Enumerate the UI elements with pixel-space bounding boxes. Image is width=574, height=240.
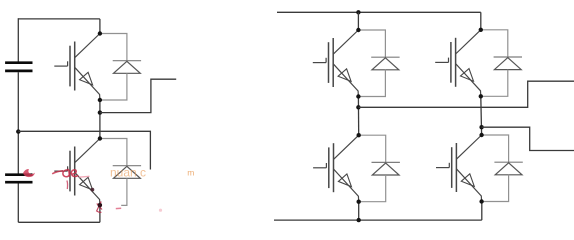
emitter arrow of Q5 (461, 69, 474, 82)
diode Q5D cathode bar (494, 56, 522, 58)
wire: leg B middle (Q5 emitter to Q6 collector) (480, 96, 483, 135)
gate terminal tick of Q2 (67, 166, 69, 171)
wire: bottom rail corner up to Q6 emitter (481, 202, 483, 221)
wire: left circuit top rail (18, 18, 100, 20)
diode Q4D cathode bar (372, 161, 400, 163)
wire: left DC bus upper segment (17, 18, 19, 61)
IGBT Q5 body bar (455, 38, 457, 87)
diode Q2D cathode bar (113, 165, 141, 167)
wire: diode loop top of Q6 (482, 135, 509, 162)
wire: diode loop top of Q4 (359, 135, 386, 162)
wire: H-bridge top rail (277, 11, 481, 13)
IGBT Q4 body bar (333, 143, 335, 192)
diode Q1D triangle (114, 61, 141, 73)
wire: phase output lead (upper terminal) (100, 79, 176, 112)
wire: left circuit bottom rail (18, 221, 100, 223)
wire: collector diagonal of Q3 (333, 30, 358, 54)
watermark: red scribble on Q2 emitter wire (96, 202, 102, 213)
watermark: red crescent on C2 (23, 169, 34, 177)
node: leg B output junction (479, 125, 483, 129)
watermark: dark smudge on Q2 arrow tip (91, 188, 95, 192)
wire: gate lead of Q2 (54, 170, 67, 172)
wire: leg A output lead to right edge (358, 81, 574, 107)
node: collector of Q6 (479, 133, 483, 137)
emitter arrow of Q4 (338, 174, 351, 187)
wire: leg B output lead to right edge (482, 127, 574, 150)
diode Q3D cathode bar (371, 56, 399, 58)
IGBT Q6 body bar (455, 143, 457, 192)
svg-text:m: m (187, 167, 194, 177)
IGBT Q2 body bar (74, 147, 76, 196)
wire: diode loop top of Q5 (481, 30, 508, 57)
wire: diode loop bottom of Q5 (481, 70, 508, 97)
gate terminal tick of Q4 (325, 163, 327, 168)
diode Q6D triangle (495, 163, 522, 175)
IGBT Q4 gate bar (328, 147, 330, 188)
wire: diode loop bottom of Q6 (482, 175, 509, 202)
wire: diode loop bottom of Q2 (broken by watermark) (121, 178, 127, 205)
wire: diode loop top of Q3 (358, 30, 385, 57)
wire: capacitor midpoint lead (lower terminal) (18, 131, 150, 169)
IGBT Q6 gate bar (451, 147, 453, 188)
wire: collector diagonal of Q4 (334, 135, 359, 159)
IGBT Q1 gate bar (69, 46, 71, 87)
svg-text:nuan c: nuan c (110, 165, 146, 179)
wire: leg A middle (Q3 emitter to Q4 collector) (357, 97, 359, 136)
wire: emitter diagonal of Q5 (456, 64, 481, 97)
node: collector of Q1 (98, 31, 102, 35)
capacitor C1 top plate (5, 61, 32, 64)
emitter arrow of Q2 (80, 177, 93, 190)
wire: H-bridge bottom rail (274, 219, 482, 221)
wire: drop from top rail to Q1 collector (99, 19, 101, 34)
capacitor C2 top plate (5, 173, 32, 176)
wire: gate lead of Q3 (313, 62, 326, 64)
wire: gate lead of Q6 (436, 167, 449, 169)
node: capacitor midpoint (16, 129, 20, 133)
watermark: red descender stroke below letters (66, 181, 69, 190)
emitter arrow of Q1 (80, 72, 93, 85)
watermark: faint pink speck lower middle (159, 209, 162, 212)
node: collector of Q4 (357, 133, 361, 137)
emitter arrow of Q6 (461, 174, 474, 187)
node: collector of Q2 (98, 136, 102, 140)
wire: Q2 emitter to bottom rail (99, 205, 101, 222)
node: collector of Q5 (479, 28, 483, 32)
watermark: dark blotch at Q2 emitter node (98, 203, 102, 207)
wire: gate lead of Q1 (54, 65, 67, 67)
wire: diode loop bottom of Q4 (359, 175, 386, 202)
wire: emitter diagonal of Q1 (75, 67, 100, 100)
wire: gate lead of Q5 (435, 61, 448, 63)
wire: diode loop top of Q1 (100, 34, 127, 61)
gate terminal tick of Q1 (67, 61, 69, 66)
IGBT Q1 body bar (74, 42, 76, 91)
wire: collector diagonal of Q5 (456, 30, 481, 54)
wire: between C1 and C2 (17, 72, 19, 173)
diode Q1D cathode bar (113, 60, 141, 62)
wire: diode loop bottom of Q3 (358, 70, 385, 97)
wire: gate lead of Q4 (313, 167, 326, 169)
watermark: red letters "ae" on Q2 (52, 171, 63, 174)
wire: top rail corner down to Q5 collector (480, 12, 482, 30)
capacitor C1 bottom plate (5, 70, 32, 73)
diode Q6D cathode bar (494, 161, 522, 163)
IGBT Q3 gate bar (328, 42, 330, 83)
wire: phase leg between Q1 emitter and Q2 collector (99, 100, 101, 139)
node: emitter of Q1 (98, 98, 102, 102)
wire: collector diagonal of Q2 (75, 139, 100, 163)
watermark: pink dash right of letters (79, 175, 90, 178)
diode Q5D triangle (494, 58, 521, 70)
wire: emitter diagonal of Q4 (334, 169, 359, 202)
wire: collector diagonal of Q1 (75, 34, 100, 58)
wire: top rail to Q3 collector (357, 12, 359, 30)
node: phase output tap (98, 110, 102, 114)
node: leg A output junction (356, 105, 360, 109)
node: top rail / leg A junction (356, 10, 360, 14)
wire: emitter diagonal of Q2 (75, 172, 100, 205)
watermark: pink dash near diode return (116, 207, 121, 209)
wire: emitter diagonal of Q3 (333, 64, 358, 97)
node: emitter of Q3 (356, 94, 360, 98)
capacitor C2 bottom plate (5, 181, 32, 184)
diode Q4D triangle (372, 163, 399, 175)
wire: collector diagonal of Q6 (456, 135, 481, 159)
gate terminal tick of Q3 (325, 58, 327, 63)
wire: emitter diagonal of Q6 (456, 169, 481, 202)
node: emitter of Q4 (357, 200, 361, 204)
IGBT Q3 body bar (332, 38, 334, 87)
node: emitter of Q5 (479, 94, 483, 98)
node: emitter of Q6 (479, 199, 483, 203)
gate terminal tick of Q6 (448, 163, 450, 168)
node: collector of Q3 (356, 28, 360, 32)
wire: diode loop top of Q2 (100, 139, 127, 166)
wire: Q4 emitter to bottom rail (358, 202, 360, 220)
wire: diode loop bottom of Q1 (100, 73, 127, 100)
IGBT Q5 gate bar (450, 42, 452, 83)
IGBT Q2 gate bar (69, 151, 71, 192)
gate terminal tick of Q5 (448, 58, 450, 63)
diode Q2D triangle (114, 166, 141, 178)
wire: left DC bus lower segment (17, 184, 19, 223)
node: bottom rail / leg A junction (357, 218, 361, 222)
emitter arrow of Q3 (338, 69, 351, 82)
node: emitter of Q2 (98, 203, 102, 207)
diode Q3D triangle (372, 58, 399, 70)
